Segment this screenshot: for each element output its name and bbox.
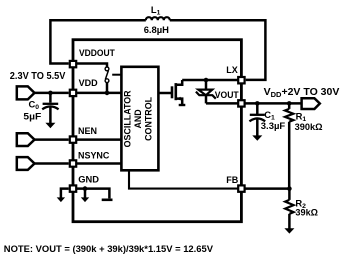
resistor R2: [288, 189, 291, 200]
pin NEN: [70, 136, 76, 142]
node switch/VDD junction: [105, 91, 110, 96]
wire switch to VDD rail: [106, 83, 109, 93]
IC U1 outline: [73, 40, 241, 222]
node R1 junction: [287, 101, 292, 106]
svg-text:LX: LX: [226, 65, 238, 75]
node diode junction: [204, 78, 209, 83]
wire VDDOUT to top-left corner: [50, 20, 145, 63]
ground arrow left: [57, 197, 65, 202]
pin FB: [238, 185, 244, 191]
wire drain to LX: [182, 79, 238, 82]
svg-text:390kΩ: 390kΩ: [295, 122, 323, 133]
output terminal VDD+2V TO 30V: [302, 98, 320, 109]
ground bar right: [102, 199, 113, 202]
pin GND: [70, 185, 76, 191]
svg-text:OSCILLATOR: OSCILLATOR: [123, 90, 133, 147]
ground bar below mosfet: [179, 104, 186, 106]
pin NSYNC: [70, 160, 76, 166]
wire gate oscillator to mosfet: [158, 92, 172, 95]
wire input to VDD: [35, 92, 69, 95]
input terminal NSYNC: [17, 157, 35, 170]
transistor Q1: [171, 86, 174, 98]
pin LX: [238, 77, 244, 83]
oscillator and control block: [121, 67, 158, 171]
wire oscillator to FB: [129, 170, 238, 188]
wire FB to divider: [245, 187, 290, 190]
ground arrow middle: [84, 189, 87, 198]
svg-text:NEN: NEN: [78, 126, 97, 136]
node C1 junction: [255, 101, 260, 106]
wire NEN into oscillator: [76, 138, 121, 141]
svg-text:FB: FB: [226, 175, 238, 185]
wire diode to VOUT pin: [206, 102, 238, 105]
svg-text:NOTE: VOUT = (390k + 39k)/39k*: NOTE: VOUT = (390k + 39k)/39k*1.15V = 12…: [4, 243, 214, 254]
svg-text:CONTROL: CONTROL: [144, 96, 154, 140]
wire VDDOUT to switch: [76, 64, 107, 68]
node GND junction: [83, 186, 88, 191]
wire VDD into IC: [76, 92, 121, 95]
svg-text:VDD: VDD: [79, 78, 99, 88]
svg-text:5µF: 5µF: [23, 111, 41, 122]
wire NEN: [35, 138, 69, 141]
pin VDDOUT: [70, 61, 76, 67]
node C0 junction: [48, 91, 53, 96]
svg-text:NSYNC: NSYNC: [78, 151, 110, 161]
wire NSYNC into oscillator: [76, 162, 121, 165]
pin VDD: [70, 90, 76, 96]
ground arrow below C0: [45, 123, 55, 128]
diode D1: [205, 80, 208, 89]
inductor L1: [146, 17, 170, 20]
pin VOUT: [238, 100, 244, 106]
switch S1: [105, 67, 109, 71]
svg-text:VDDOUT: VDDOUT: [79, 48, 115, 58]
svg-text:GND: GND: [78, 175, 99, 185]
input terminal 2.3V TO 5.5V: [17, 86, 35, 99]
node FB junction: [287, 186, 292, 191]
svg-text:AND: AND: [133, 109, 143, 129]
svg-text:VOUT: VOUT: [215, 90, 239, 100]
svg-text:6.8µH: 6.8µH: [144, 25, 169, 36]
svg-text:39kΩ: 39kΩ: [295, 207, 318, 218]
capacitor C0: [49, 93, 52, 103]
svg-text:3.3µF: 3.3µF: [261, 121, 286, 132]
wire switch control to oscillator: [112, 74, 121, 76]
wire NSYNC: [35, 162, 69, 165]
wire VOUT to output terminal: [245, 102, 302, 105]
resistor R1: [288, 103, 291, 109]
ground arrow below R2: [284, 228, 294, 233]
capacitor C1: [256, 103, 259, 114]
ground arrow below C1: [252, 135, 262, 140]
wire GND right branch: [76, 189, 109, 199]
svg-text:2.3V TO 5.5V: 2.3V TO 5.5V: [10, 71, 66, 82]
wire GND left branch: [61, 189, 69, 198]
input terminal NEN: [17, 133, 35, 146]
wire top to LX: [170, 20, 266, 80]
